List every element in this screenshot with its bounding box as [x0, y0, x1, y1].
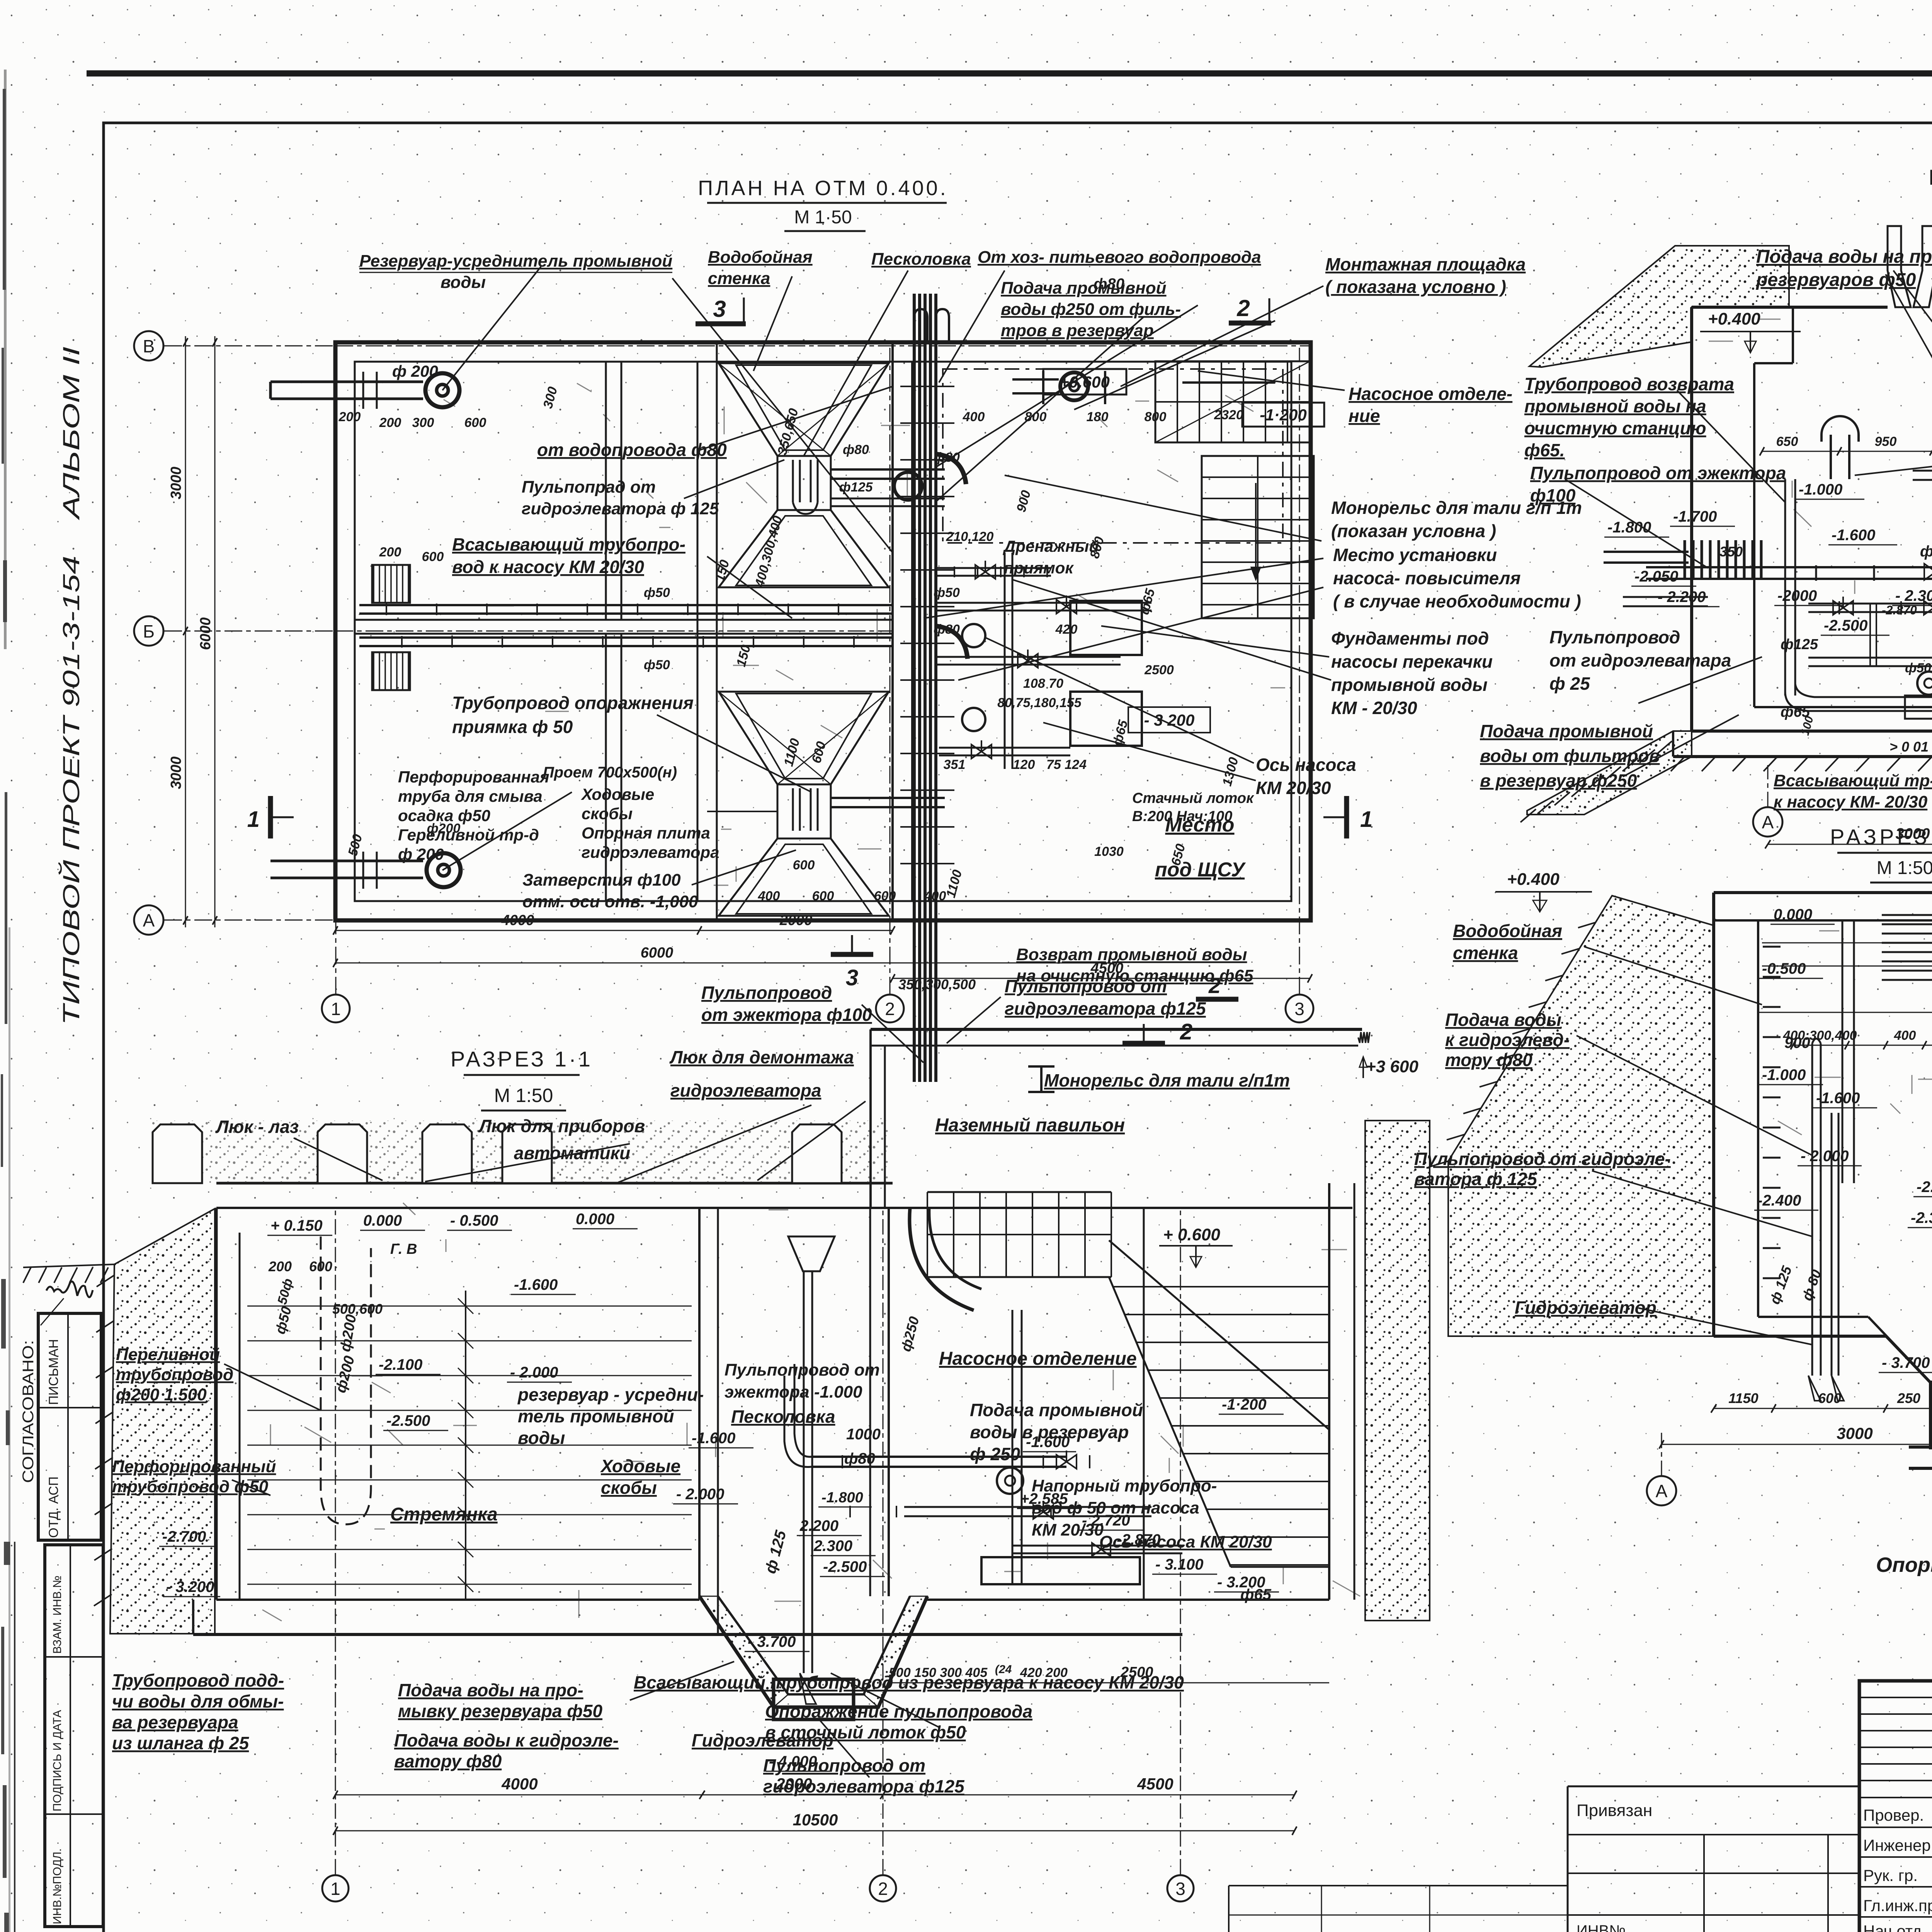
svg-text:600: 600 [464, 415, 486, 430]
svg-text:2000: 2000 [776, 1775, 812, 1793]
svg-text:-1.800: -1.800 [821, 1490, 863, 1506]
svg-text:вод ф 50 от насоса: вод ф 50 от насоса [1032, 1498, 1199, 1517]
svg-text:тров в резервуар: тров в резервуар [1001, 321, 1154, 340]
svg-text:из шланга ф 25: из шланга ф 25 [112, 1733, 250, 1753]
svg-text:от эжектора ф100: от эжектора ф100 [701, 1005, 872, 1025]
svg-text:250: 250 [1897, 1390, 1920, 1406]
svg-text:4000: 4000 [501, 1775, 537, 1793]
svg-text:Люк для приборов: Люк для приборов [478, 1116, 645, 1136]
svg-text:950: 950 [1875, 434, 1897, 449]
svg-text:ф200 1.500: ф200 1.500 [116, 1385, 207, 1404]
svg-text:0.000: 0.000 [1774, 906, 1812, 923]
svg-text:-2.500: -2.500 [823, 1558, 867, 1575]
svg-text:-1.600: -1.600 [1816, 1090, 1860, 1107]
svg-text:6000: 6000 [641, 945, 673, 961]
svg-text:-1.600: -1.600 [692, 1430, 735, 1447]
svg-text:400: 400 [963, 410, 985, 424]
svg-text:- 3.200: - 3.200 [166, 1578, 214, 1595]
svg-text:Переливной: Переливной [116, 1345, 220, 1364]
svg-text:400:300,400: 400:300,400 [1783, 1028, 1857, 1043]
svg-text:РАЗРЕЗ 1·1: РАЗРЕЗ 1·1 [451, 1047, 593, 1071]
svg-text:тель промывной: тель промывной [518, 1406, 674, 1426]
svg-text:Проем 700x500(н): Проем 700x500(н) [543, 764, 677, 781]
svg-text:Дренажный: Дренажный [1003, 537, 1099, 555]
svg-text:стенка: стенка [708, 269, 770, 288]
svg-text:200: 200 [268, 1259, 292, 1274]
svg-text:400: 400 [924, 889, 946, 903]
svg-text:- 2.000: - 2.000 [1801, 1148, 1849, 1165]
svg-text:( в случае необходимости ): ( в случае необходимости ) [1333, 591, 1581, 611]
svg-text:ф80: ф80 [934, 450, 960, 465]
svg-text:насосы перекачки: насосы перекачки [1331, 651, 1493, 672]
svg-text:Наземный павильон: Наземный павильон [935, 1115, 1125, 1136]
svg-text:-1.000: -1.000 [1762, 1066, 1806, 1083]
svg-text:ва резервуара: ва резервуара [112, 1712, 238, 1732]
svg-text:мывку резервуара ф50: мывку резервуара ф50 [398, 1701, 603, 1721]
svg-text:3000: 3000 [1837, 1424, 1872, 1442]
svg-text:РАЗРЕЗ 2-2: РАЗРЕЗ 2-2 [1929, 165, 1932, 189]
svg-text:Пульпопровод от эжектора: Пульпопровод от эжектора [1530, 463, 1786, 483]
svg-text:Трубопровод опоражнения: Трубопровод опоражнения [452, 693, 694, 713]
svg-text:600: 600 [309, 1259, 332, 1274]
svg-text:+ 0.600: + 0.600 [1163, 1225, 1221, 1244]
svg-text:ПИСЬМАН: ПИСЬМАН [46, 1339, 61, 1405]
svg-text:ПОДПИСЬ И ДАТА: ПОДПИСЬ И ДАТА [51, 1710, 64, 1811]
svg-text:2320: 2320 [1214, 408, 1243, 422]
svg-text:3000: 3000 [168, 757, 184, 789]
svg-text:Пульпопровод от гидроэле-: Пульпопровод от гидроэле- [1414, 1149, 1671, 1169]
svg-text:труба для смыва: труба для смыва [398, 787, 543, 805]
svg-text:от водопровода ф80: от водопровода ф80 [537, 440, 727, 460]
svg-text:ф 200: ф 200 [392, 362, 438, 380]
svg-text:-2.400: -2.400 [1757, 1192, 1801, 1209]
svg-text:Монорельс для тали г/п1т: Монорельс для тали г/п1т [1044, 1070, 1290, 1090]
svg-text:800: 800 [1025, 410, 1047, 424]
svg-text:-2.300: -2.300 [1911, 1209, 1932, 1226]
svg-text:к насосу КМ- 20/30: к насосу КМ- 20/30 [1774, 793, 1928, 811]
svg-text:2500: 2500 [1144, 663, 1174, 677]
svg-text:Опорная плита: Опорная плита [582, 824, 710, 842]
svg-text:- 3.700: - 3.700 [1882, 1354, 1930, 1371]
svg-text:Пульпопровод от: Пульпопровод от [724, 1361, 880, 1379]
svg-text:Фундаменты под: Фундаменты под [1331, 628, 1489, 648]
svg-text:резервуар - усредни-: резервуар - усредни- [517, 1384, 704, 1405]
svg-text:ф125: ф125 [1781, 636, 1818, 653]
svg-text:2.300: 2.300 [813, 1537, 852, 1554]
svg-text:Ходовые: Ходовые [581, 785, 654, 803]
svg-text:Пульпопрад от: Пульпопрад от [522, 478, 656, 497]
svg-text:Рук. гр.: Рук. гр. [1863, 1866, 1918, 1884]
svg-text:ф200: ф200 [427, 821, 461, 836]
svg-text:Привязан: Привязан [1577, 1801, 1652, 1820]
svg-text:2.200: 2.200 [799, 1517, 838, 1534]
svg-text:1: 1 [1360, 807, 1372, 832]
svg-text:- 2.000: - 2.000 [676, 1486, 724, 1503]
svg-text:Провер.: Провер. [1863, 1806, 1924, 1824]
svg-text:420 200: 420 200 [1020, 1665, 1068, 1680]
svg-text:(24: (24 [995, 1663, 1012, 1676]
svg-text:( показана условно ): ( показана условно ) [1325, 277, 1506, 297]
svg-text:Стремянка: Стремянка [390, 1504, 498, 1525]
svg-text:Люк для демонтажа: Люк для демонтажа [669, 1047, 854, 1067]
svg-text:Напорный трубопро-: Напорный трубопро- [1032, 1476, 1217, 1495]
svg-text:+0.400: +0.400 [1708, 310, 1760, 328]
svg-text:Инженер: Инженер [1863, 1836, 1931, 1854]
svg-text:ф 200: ф 200 [398, 845, 444, 863]
svg-text:ф50: ф50 [934, 585, 960, 600]
svg-text:М 1:50: М 1:50 [1877, 858, 1932, 878]
svg-text:Опоражжение пульпопровода: Опоражжение пульпопровода [765, 1701, 1032, 1721]
svg-text:приямка ф 50: приямка ф 50 [452, 717, 573, 737]
svg-text:Пульпопровод от: Пульпопровод от [763, 1755, 925, 1776]
svg-text:Перфорированная: Перфорированная [398, 768, 549, 786]
svg-text:гидроэлеватора: гидроэлеватора [670, 1080, 821, 1100]
svg-text:2: 2 [885, 999, 895, 1019]
svg-text:ф100: ф100 [1920, 543, 1932, 560]
svg-text:ватора ф 125: ватора ф 125 [1414, 1169, 1537, 1189]
svg-text:-1.000: -1.000 [1799, 481, 1842, 498]
svg-text:КМ 20/30: КМ 20/30 [1256, 778, 1331, 798]
svg-text:промывной воды на: промывной воды на [1524, 396, 1706, 416]
svg-text:стенка: стенка [1453, 943, 1518, 963]
svg-text:ф80: ф80 [934, 622, 960, 637]
svg-text:Ходовые: Ходовые [600, 1456, 680, 1476]
svg-text:Г. В: Г. В [390, 1241, 417, 1257]
svg-text:Трубопровод возврата: Трубопровод возврата [1524, 374, 1734, 394]
svg-text:600: 600 [793, 858, 815, 872]
svg-text:800: 800 [1145, 410, 1167, 424]
svg-text:ф65.: ф65. [1524, 440, 1565, 460]
svg-text:-2.200: -2.200 [1917, 1179, 1932, 1196]
svg-text:600: 600 [812, 889, 834, 903]
svg-text:- 3.100: - 3.100 [1155, 1556, 1204, 1573]
svg-text:-2.500: -2.500 [386, 1412, 430, 1429]
svg-text:+0.400: +0.400 [1507, 870, 1560, 889]
svg-text:200: 200 [338, 410, 361, 424]
svg-text:трубопровод ф50: трубопровод ф50 [112, 1477, 269, 1496]
svg-text:- 3.700: - 3.700 [748, 1633, 796, 1650]
svg-text:-2.700: -2.700 [162, 1528, 206, 1545]
svg-text:-1.800: -1.800 [1607, 519, 1651, 536]
svg-text:ОТД. АСП: ОТД. АСП [46, 1476, 61, 1538]
svg-text:+ 0.150: + 0.150 [270, 1217, 323, 1234]
svg-text:эжектора -1.000: эжектора -1.000 [724, 1383, 862, 1401]
svg-text:воды от фильтров: воды от фильтров [1480, 746, 1660, 766]
svg-text:от гидроэлеватара: от гидроэлеватара [1549, 650, 1731, 670]
svg-text:ние: ние [1349, 406, 1380, 426]
svg-text:-0.500: -0.500 [1762, 960, 1806, 977]
svg-text:2: 2 [878, 1879, 888, 1899]
svg-text:420: 420 [1055, 622, 1078, 637]
svg-text:- 0.500: - 0.500 [450, 1212, 498, 1229]
svg-text:+3 600: +3 600 [1366, 1057, 1418, 1076]
svg-text:2: 2 [1208, 973, 1221, 998]
svg-text:ф50: ф50 [644, 585, 670, 600]
svg-text:АЛЬБОМ II: АЛЬБОМ II [58, 347, 84, 520]
svg-text:КМ 20/30: КМ 20/30 [1032, 1520, 1104, 1539]
svg-text:А: А [1762, 812, 1774, 832]
svg-text:гидроэлеватора ф 125: гидроэлеватора ф 125 [522, 499, 719, 518]
svg-text:1030: 1030 [1094, 844, 1124, 859]
svg-text:2500: 2500 [1120, 1664, 1153, 1680]
svg-text:ф65: ф65 [1240, 1586, 1272, 1603]
svg-text:Возврат промывной воды: Возврат промывной воды [1016, 945, 1247, 964]
svg-text:-1.600: -1.600 [514, 1276, 558, 1293]
svg-text:Подача промывной: Подача промывной [970, 1400, 1143, 1420]
svg-text:Нач.отд.: Нач.отд. [1863, 1922, 1926, 1932]
svg-text:Водобойная: Водобойная [708, 248, 813, 267]
svg-text:120: 120 [1013, 757, 1035, 772]
svg-text:Песколовка: Песколовка [731, 1406, 835, 1427]
svg-text:Пульпопровод: Пульпопровод [701, 983, 832, 1003]
svg-text:КМ - 20/30: КМ - 20/30 [1331, 698, 1417, 718]
svg-text:2: 2 [1236, 295, 1250, 321]
svg-text:0.000: 0.000 [363, 1212, 402, 1229]
svg-text:2000: 2000 [779, 912, 813, 929]
svg-text:В: В [143, 336, 155, 356]
svg-text:Насосное отделение: Насосное отделение [939, 1349, 1137, 1369]
svg-text:очистную станцию: очистную станцию [1524, 418, 1706, 438]
svg-text:ИНВ.№ПОДЛ.: ИНВ.№ПОДЛ. [51, 1849, 64, 1924]
svg-text:чи воды для обмы-: чи воды для обмы- [112, 1691, 284, 1711]
svg-text:приямок: приямок [1004, 559, 1074, 577]
svg-text:воды: воды [440, 273, 486, 292]
svg-text:1150: 1150 [1728, 1390, 1758, 1406]
svg-text:600: 600 [874, 889, 896, 903]
svg-text:Затверстия ф100: Затверстия ф100 [522, 871, 681, 889]
svg-text:скобы: скобы [601, 1478, 657, 1498]
svg-text:650: 650 [1776, 434, 1798, 449]
svg-text:210,120: 210,120 [946, 529, 994, 544]
svg-text:СОГЛАСОВАНО:: СОГЛАСОВАНО: [20, 1340, 37, 1483]
svg-text:А: А [143, 910, 155, 930]
svg-text:500,600: 500,600 [332, 1301, 383, 1317]
svg-text:резервуаров ф50: резервуаров ф50 [1755, 270, 1916, 290]
svg-text:ф80: ф80 [844, 1450, 875, 1467]
svg-text:ф80: ф80 [843, 442, 869, 457]
svg-text:Всасывающий трубопро-: Всасывающий трубопро- [452, 534, 685, 554]
svg-text:-1.700: -1.700 [1673, 508, 1717, 525]
svg-text:отм. оси отв. -1,000: отм. оси отв. -1,000 [522, 892, 698, 911]
svg-text:4500: 4500 [1137, 1775, 1173, 1793]
svg-text:трубопровод: трубопровод [116, 1365, 233, 1384]
svg-text:ф 250: ф 250 [970, 1444, 1020, 1464]
svg-text:-1.600: -1.600 [1026, 1434, 1070, 1451]
svg-text:-1.600: -1.600 [1832, 527, 1875, 544]
svg-text:воды: воды [518, 1428, 565, 1448]
svg-text:-1·200: -1·200 [1222, 1396, 1267, 1413]
svg-text:1: 1 [247, 807, 260, 832]
svg-text:гидроэлеватора: гидроэлеватора [582, 843, 719, 861]
svg-text:Ось насоса: Ось насоса [1256, 755, 1356, 775]
svg-text:4000: 4000 [501, 912, 534, 929]
svg-text:-2000: -2000 [1777, 587, 1817, 604]
svg-text:200: 200 [379, 545, 401, 560]
svg-text:ватору ф80: ватору ф80 [394, 1751, 502, 1771]
svg-text:1000: 1000 [846, 1426, 881, 1443]
svg-text:350,300,500: 350,300,500 [898, 976, 976, 992]
svg-text:ПЛАН НА ОТМ 0.400.: ПЛАН НА ОТМ 0.400. [698, 177, 948, 200]
svg-text:гидроэлеватора ф125: гидроэлеватора ф125 [1005, 998, 1206, 1019]
svg-text:0.000: 0.000 [576, 1211, 614, 1228]
svg-text:(показан условна ): (показан условна ) [1331, 521, 1496, 541]
svg-text:Песколовка: Песколовка [871, 250, 971, 269]
svg-text:От хоз- питьевого водопровода: От хоз- питьевого водопровода [978, 248, 1261, 267]
svg-text:3: 3 [713, 296, 726, 322]
svg-text:Перфорированный: Перфорированный [112, 1457, 276, 1476]
svg-text:Трубопровод подд-: Трубопровод подд- [112, 1670, 284, 1690]
svg-text:1: 1 [330, 1879, 340, 1899]
svg-text:- 2.000: - 2.000 [510, 1364, 558, 1381]
svg-text:ВЗАМ. ИНВ.№: ВЗАМ. ИНВ.№ [51, 1575, 64, 1654]
svg-text:Подача воды: Подача воды [1445, 1010, 1561, 1030]
svg-text:скобы: скобы [582, 804, 633, 823]
svg-text:351: 351 [944, 757, 966, 772]
svg-text:промывной воды: промывной воды [1331, 675, 1488, 695]
svg-text:180: 180 [1087, 410, 1109, 424]
svg-text:к гидроэлевд-: к гидроэлевд- [1445, 1030, 1570, 1050]
svg-text:М 1·50: М 1·50 [794, 207, 852, 228]
svg-text:Подача воды на про-: Подача воды на про- [398, 1680, 583, 1700]
svg-text:Б: Б [143, 621, 155, 641]
svg-text:Монтажная площадка: Монтажная площадка [1325, 254, 1526, 274]
svg-text:Гереливной тр-д: Гереливной тр-д [398, 826, 539, 844]
svg-text:Резервуар-усреднитель промывно: Резервуар-усреднитель промывной [359, 252, 672, 270]
svg-text:Ось насоса КМ 20/30: Ось насоса КМ 20/30 [1099, 1532, 1272, 1551]
svg-text:75 124: 75 124 [1046, 757, 1087, 772]
svg-text:тору ф80: тору ф80 [1445, 1050, 1532, 1070]
svg-text:Стачный лоток: Стачный лоток [1132, 790, 1254, 806]
svg-text:Насосное отделе-: Насосное отделе- [1349, 384, 1512, 404]
svg-text:ИНВ№: ИНВ№ [1577, 1922, 1626, 1932]
svg-text:ф50: ф50 [644, 658, 670, 672]
svg-text:Подача промывной: Подача промывной [1480, 721, 1653, 741]
svg-text:Всасывающий тр-д ф80: Всасывающий тр-д ф80 [1774, 771, 1932, 790]
svg-text:600: 600 [422, 549, 444, 564]
svg-text:М 1:50: М 1:50 [494, 1085, 553, 1106]
svg-text:200: 200 [379, 415, 401, 430]
svg-text:2: 2 [1180, 1019, 1192, 1044]
svg-text:Гл.инж.пр: Гл.инж.пр [1863, 1896, 1932, 1915]
svg-text:400: 400 [758, 889, 780, 903]
svg-text:3000: 3000 [168, 467, 184, 500]
svg-text:> 0 01: > 0 01 [1889, 739, 1929, 755]
svg-text:воды ф250 от филь-: воды ф250 от филь- [1001, 300, 1181, 319]
svg-text:вод к насосу КМ 20/30: вод к насосу КМ 20/30 [452, 557, 644, 577]
svg-text:Пульпопровод от: Пульпопровод от [1005, 976, 1167, 996]
svg-text:ф50: ф50 [1905, 661, 1931, 675]
svg-text:600: 600 [1818, 1390, 1841, 1406]
svg-text:500 150 300 405: 500 150 300 405 [889, 1665, 988, 1680]
svg-text:Опоры под задвижки и трубы: Опоры под задвижки и трубы см. чертежи м… [1876, 1553, 1932, 1577]
svg-text:Подача промывной: Подача промывной [1001, 279, 1167, 298]
svg-text:Пульпопровод: Пульпопровод [1549, 627, 1680, 647]
svg-text:3: 3 [846, 965, 858, 990]
svg-text:Люк - лаз: Люк - лаз [215, 1117, 299, 1137]
svg-text:РАЗРЕЗ 3-3: РАЗРЕЗ 3-3 [1830, 825, 1932, 849]
svg-text:-2.050: -2.050 [1634, 568, 1678, 585]
svg-text:6000: 6000 [197, 617, 214, 650]
svg-text:Водобойная: Водобойная [1453, 921, 1562, 941]
svg-text:ТИПОВОЙ ПРОЕКТ 901-3-154: ТИПОВОЙ ПРОЕКТ 901-3-154 [58, 556, 84, 1025]
svg-text:в резервуар ф250: в резервуар ф250 [1480, 770, 1637, 791]
svg-text:В:200 Нач:100: В:200 Нач:100 [1132, 808, 1232, 825]
svg-text:Гидроэлеватор: Гидроэлеватор [1515, 1298, 1656, 1318]
svg-text:3: 3 [1175, 1879, 1185, 1899]
svg-text:3: 3 [1294, 999, 1304, 1019]
svg-text:300: 300 [412, 415, 434, 430]
svg-text:- 2.200: - 2.200 [1658, 588, 1706, 605]
svg-text:-2.870: -2.870 [1882, 603, 1917, 617]
svg-text:1: 1 [331, 999, 341, 1019]
svg-text:автоматики: автоматики [514, 1143, 630, 1163]
svg-text:350: 350 [1719, 544, 1743, 560]
svg-text:- 3 200: - 3 200 [1144, 711, 1195, 729]
svg-text:10500: 10500 [793, 1811, 838, 1829]
svg-text:Подача воды на промывку: Подача воды на промывку [1756, 247, 1932, 267]
svg-text:Подача воды к гидроэле-: Подача воды к гидроэле- [394, 1730, 619, 1750]
svg-text:400: 400 [1894, 1028, 1916, 1043]
svg-text:80,75,180,155: 80,75,180,155 [997, 696, 1082, 710]
svg-text:Место установки: Место установки [1333, 545, 1497, 565]
svg-text:А: А [1656, 1481, 1668, 1501]
svg-text:108 70: 108 70 [1023, 676, 1063, 691]
svg-text:ф100: ф100 [1530, 485, 1576, 505]
svg-text:-2.500: -2.500 [1824, 617, 1867, 634]
svg-text:насоса- повысителя: насоса- повысителя [1333, 568, 1520, 588]
svg-text:-2.100: -2.100 [379, 1356, 422, 1373]
svg-text:ф 25: ф 25 [1549, 673, 1590, 694]
svg-text:- 2.300: - 2.300 [1895, 587, 1932, 604]
svg-text:300,400: 300,400 [1930, 1390, 1932, 1406]
